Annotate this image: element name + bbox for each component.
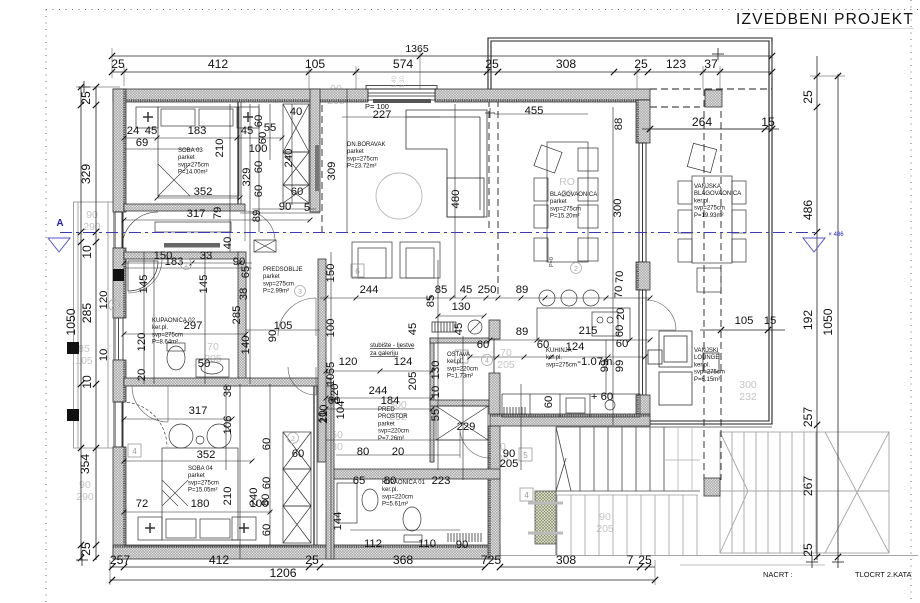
svg-text:45: 45 [241, 125, 254, 137]
svg-text:69: 69 [136, 137, 149, 149]
dim 105 15 line terrace [700, 329, 785, 331]
svg-text:79: 79 [212, 207, 224, 220]
svg-text:40: 40 [222, 237, 234, 250]
svg-text:2: 2 [574, 266, 578, 273]
wall interior above bath02 [124, 252, 245, 259]
page border top dotted [46, 9, 920, 11]
lower floor ghost outline left balcony [74, 202, 114, 448]
svg-text:257: 257 [110, 553, 131, 567]
svg-text:110: 110 [418, 538, 436, 550]
column wall left [113, 269, 124, 281]
svg-text:20: 20 [136, 369, 148, 382]
svg-text:4: 4 [132, 447, 137, 456]
svg-text:223: 223 [432, 475, 451, 487]
wall interior bath01 left [326, 386, 334, 559]
tv wall strip living [315, 145, 319, 191]
svg-text:90: 90 [456, 539, 469, 551]
ostava door leaf [493, 339, 495, 373]
wall interior predsoblje right [318, 259, 326, 462]
circled tag [181, 259, 192, 270]
svg-text:60: 60 [257, 132, 269, 145]
page border left dotted [45, 10, 47, 603]
svg-text:455: 455 [525, 105, 544, 117]
svg-text:A: A [112, 303, 117, 310]
svg-text:10: 10 [430, 386, 442, 399]
wall interior below soba03 [124, 204, 245, 211]
section triangle right [803, 238, 825, 252]
wall interior bath02 right [238, 252, 246, 384]
staircase lower flight [556, 495, 698, 555]
roof overhang dashed lines terrace [650, 89, 772, 480]
page border right dotted [910, 0, 912, 603]
door arc predsoblje a [278, 298, 316, 336]
svg-text:192: 192 [801, 310, 815, 331]
wall exterior top left segment [113, 89, 368, 102]
dimension line chain top row2 [112, 71, 772, 73]
wall exterior step [488, 426, 500, 559]
bed soba03 [136, 107, 259, 196]
svg-text:40: 40 [290, 106, 303, 118]
svg-text:25: 25 [638, 553, 652, 567]
door arc soba04 [132, 386, 168, 422]
svg-text:105: 105 [735, 315, 754, 327]
svg-text:TLOCRT 2.KATA: TLOCRT 2.KATA [855, 570, 912, 579]
svg-text:257: 257 [801, 407, 815, 428]
svg-text:60: 60 [616, 338, 629, 350]
svg-text:210: 210 [222, 487, 234, 506]
svg-text:25: 25 [801, 543, 815, 557]
sofa L living room [406, 108, 495, 217]
svg-text:329: 329 [79, 164, 93, 185]
svg-text:240: 240 [248, 488, 260, 507]
svg-text:105: 105 [305, 57, 326, 71]
staircase upper flight [556, 427, 772, 555]
closet X soba03 [283, 104, 309, 203]
svg-text:120: 120 [329, 384, 341, 403]
wall interior ostava top [430, 338, 489, 343]
svg-text:90: 90 [599, 511, 611, 523]
svg-text:329: 329 [241, 168, 253, 187]
svg-text:89: 89 [516, 326, 529, 338]
svg-text:140: 140 [240, 336, 252, 355]
dining table and chairs [534, 142, 598, 262]
svg-text:60: 60 [253, 185, 265, 198]
svg-text:25: 25 [79, 542, 93, 556]
kitchen island [537, 290, 630, 340]
right dim vertical lines [816, 56, 818, 560]
lamp symbols soba03 [143, 112, 253, 122]
svg-text:285: 285 [80, 303, 94, 324]
svg-text:229: 229 [457, 421, 476, 433]
svg-text:4: 4 [524, 491, 529, 500]
pillar terrace top [705, 90, 722, 107]
door tag [519, 448, 532, 461]
svg-text:72: 72 [136, 498, 149, 510]
svg-text:354: 354 [78, 454, 92, 475]
svg-text:232: 232 [739, 391, 757, 403]
svg-text:60: 60 [543, 396, 555, 409]
bottom dim line row2 1206 [110, 579, 655, 581]
svg-text:300: 300 [612, 199, 624, 218]
svg-text:65: 65 [240, 266, 252, 279]
dishwasher stripes [504, 407, 525, 415]
svg-text:50: 50 [198, 358, 211, 370]
svg-text:10: 10 [80, 375, 94, 389]
svg-text:725: 725 [481, 553, 502, 567]
svg-text:3: 3 [298, 289, 302, 296]
partition soba03 right a [237, 102, 239, 204]
svg-text:150: 150 [325, 264, 337, 283]
svg-text:1206: 1206 [269, 566, 296, 580]
window bathroom 02 [115, 318, 123, 360]
wall interior ostava bottom [430, 400, 489, 406]
svg-text:60: 60 [292, 448, 305, 460]
left dim vertical lines [80, 87, 82, 560]
circled tag [109, 300, 120, 311]
svg-text:1050: 1050 [821, 308, 835, 335]
wall exterior right lower [636, 395, 650, 425]
svg-text:70: 70 [614, 271, 626, 284]
section triangle left [48, 238, 70, 252]
bed soba04 [138, 448, 256, 540]
svg-text:45: 45 [145, 125, 158, 137]
svg-text:120: 120 [136, 333, 148, 352]
gallery edge dashed lines living room [322, 100, 498, 298]
svg-text:205: 205 [500, 458, 519, 470]
wall exterior right upper [636, 100, 650, 143]
door tag [351, 264, 364, 277]
partition soba04 closet right b [316, 386, 318, 545]
door tag [455, 350, 468, 363]
svg-text:10: 10 [317, 411, 329, 424]
svg-text:70: 70 [207, 341, 219, 353]
svg-text:120: 120 [339, 356, 358, 368]
circled tag [288, 433, 299, 444]
svg-text:285: 285 [231, 306, 243, 325]
section line A-A blue dashed [60, 232, 815, 234]
outdoor dining table terrace [678, 143, 746, 292]
svg-text:90: 90 [279, 201, 292, 213]
svg-text:1: 1 [184, 262, 188, 269]
bottom dim line row1 [110, 566, 485, 568]
wall exterior left upper [113, 89, 126, 212]
gallery ladder [432, 322, 456, 332]
survey cross markers [76, 48, 844, 568]
svg-text:205: 205 [497, 359, 515, 371]
svg-text:65: 65 [353, 475, 366, 487]
svg-text:368: 368 [393, 553, 414, 567]
lamp symbols soba04 [145, 523, 249, 533]
svg-text:15: 15 [764, 315, 777, 327]
svg-text:317: 317 [189, 405, 208, 417]
svg-text:25: 25 [111, 57, 125, 71]
svg-text:80: 80 [260, 494, 272, 507]
wall interior closet right [310, 89, 320, 212]
column balcony b [67, 409, 79, 421]
svg-text:60: 60 [261, 477, 273, 490]
kitchen counter bottom [502, 394, 640, 417]
dim 264 15 line [642, 128, 779, 130]
svg-text:20: 20 [615, 308, 627, 321]
lounge furniture terrace [648, 331, 719, 405]
svg-text:85: 85 [78, 343, 90, 355]
svg-text:RO: RO [559, 176, 575, 188]
svg-text:90: 90 [267, 330, 279, 343]
green bench [535, 491, 556, 544]
pillar terrace bottom [704, 478, 720, 496]
svg-text:210: 210 [214, 139, 226, 158]
dimension line chain top 1365 [112, 55, 772, 57]
svg-text:70: 70 [613, 286, 625, 299]
svg-text:85: 85 [435, 284, 448, 296]
svg-text:60: 60 [261, 438, 273, 451]
svg-text:IZVEDBENI PROJEKT: IZVEDBENI PROJEKT [736, 11, 914, 28]
svg-text:55: 55 [325, 362, 337, 375]
svg-text:412: 412 [209, 553, 230, 567]
svg-text:240: 240 [283, 149, 295, 168]
title underline [748, 28, 914, 30]
svg-text:60: 60 [253, 115, 265, 128]
svg-text:55: 55 [430, 409, 442, 422]
svg-text:480: 480 [450, 190, 462, 209]
bathroom 02 fixtures [128, 261, 229, 377]
svg-text:60: 60 [291, 186, 304, 198]
closet predsoblje [254, 240, 276, 252]
wall exterior left mid2 [113, 360, 126, 402]
svg-text:120: 120 [98, 291, 110, 310]
svg-text:25: 25 [801, 90, 815, 104]
wall interior above soba04 [124, 378, 331, 386]
svg-text:244: 244 [360, 284, 379, 296]
svg-text:124: 124 [394, 356, 413, 368]
svg-text:309: 309 [326, 162, 338, 181]
svg-text:183: 183 [188, 125, 207, 137]
svg-text:A: A [56, 218, 63, 229]
svg-text:308: 308 [556, 57, 577, 71]
svg-text:264: 264 [692, 115, 713, 129]
door arc predsoblje b [288, 367, 316, 395]
closet X soba04 [283, 432, 311, 543]
svg-text:6: 6 [355, 267, 360, 276]
ostava washing machine [468, 320, 482, 334]
entry door left [115, 212, 158, 248]
interior dim lines [124, 89, 772, 559]
roof outline bottom-right [720, 432, 889, 553]
svg-text:1365: 1365 [405, 43, 429, 55]
svg-text:37: 37 [704, 57, 718, 71]
svg-text:574: 574 [393, 57, 414, 71]
armchairs living [352, 242, 440, 278]
svg-text:60: 60 [261, 524, 273, 537]
svg-text:5: 5 [304, 202, 310, 214]
wall interior void right [430, 338, 434, 462]
door arc pred prostor [460, 430, 490, 458]
svg-text:45: 45 [407, 323, 419, 336]
svg-text:20: 20 [392, 446, 405, 458]
sideboard hallway [164, 243, 220, 248]
svg-text:P=0: P=0 [549, 257, 555, 267]
svg-text:-1.07m2: -1.07m2 [577, 356, 615, 368]
svg-text:7: 7 [627, 553, 634, 567]
wall interior bath01 top [328, 469, 500, 479]
svg-text:P= 100: P= 100 [365, 102, 389, 111]
door tag [128, 444, 141, 457]
svg-text:317: 317 [187, 208, 206, 220]
svg-text:105: 105 [75, 355, 93, 367]
svg-text:4: 4 [485, 358, 489, 365]
svg-text:180: 180 [191, 498, 210, 510]
svg-text:25: 25 [485, 57, 499, 71]
svg-text:412: 412 [208, 57, 229, 71]
svg-text:130: 130 [452, 301, 471, 313]
svg-text:130: 130 [430, 361, 442, 380]
svg-text:89: 89 [251, 210, 263, 223]
interior dim ticks [324, 296, 329, 301]
svg-text:5: 5 [523, 451, 528, 460]
svg-text:1050: 1050 [64, 308, 78, 335]
svg-text:99: 99 [614, 360, 626, 373]
svg-text:60: 60 [477, 339, 490, 351]
svg-text:+ 60: + 60 [591, 391, 613, 403]
wall exterior kitchen bottom [490, 414, 650, 426]
svg-text:205: 205 [407, 372, 419, 391]
svg-text:112: 112 [364, 538, 382, 550]
circled tag [571, 263, 582, 274]
svg-text:2: 2 [291, 436, 295, 443]
svg-text:184: 184 [381, 395, 400, 407]
svg-text:308: 308 [556, 553, 577, 567]
svg-text:250: 250 [478, 284, 497, 296]
svg-text:88: 88 [613, 118, 625, 131]
svg-text:486: 486 [801, 200, 815, 221]
circled tag [482, 355, 493, 366]
svg-text:38: 38 [238, 288, 250, 301]
chairs soba04 [169, 424, 231, 448]
svg-text:145: 145 [138, 275, 150, 294]
partition soba03 right b [240, 102, 242, 204]
column balcony a [67, 342, 79, 354]
round rug living [376, 173, 422, 219]
wall exterior left lower [113, 447, 126, 559]
bathroom 01 fixtures [337, 483, 422, 542]
svg-text:300: 300 [739, 379, 757, 391]
svg-text:60: 60 [253, 161, 265, 174]
door arc soba03 [245, 211, 275, 241]
svg-text:25: 25 [634, 57, 648, 71]
svg-text:× 486: × 486 [828, 232, 844, 238]
svg-text:290: 290 [76, 491, 94, 503]
terrace frame double outline [488, 38, 772, 424]
svg-text:123: 123 [666, 57, 687, 71]
window top living room [368, 89, 435, 100]
door arc bath02 [128, 259, 162, 293]
wall exterior top right segment [435, 89, 650, 102]
balcony door soba 04 [115, 402, 167, 447]
svg-text:144: 144 [332, 512, 344, 531]
wall exterior bottom [113, 545, 500, 559]
lower terrace line [680, 564, 825, 566]
wall interior kitchen left lower [489, 373, 500, 414]
door tag [520, 488, 533, 501]
svg-text:10: 10 [80, 245, 94, 259]
wall pier right [636, 262, 650, 290]
terrace edge line [500, 555, 918, 557]
svg-text:45: 45 [453, 323, 465, 336]
svg-text:45: 45 [460, 284, 473, 296]
partition soba04 closet right [313, 386, 315, 545]
svg-text:352: 352 [197, 449, 216, 461]
closet X below ostava [436, 406, 488, 440]
svg-text:38: 38 [222, 385, 234, 398]
svg-text:15: 15 [761, 115, 775, 129]
svg-text:1 40: 1 40 [392, 76, 398, 88]
svg-text:80: 80 [357, 446, 370, 458]
svg-text:145: 145 [198, 275, 210, 294]
svg-text:25: 25 [79, 91, 93, 105]
svg-text:60: 60 [614, 325, 626, 338]
svg-text:89: 89 [516, 284, 529, 296]
glass door terrace [639, 290, 646, 395]
svg-text:33: 33 [200, 250, 213, 262]
svg-text:290: 290 [83, 221, 101, 233]
svg-text:25: 25 [305, 553, 319, 567]
window dining east [639, 143, 646, 262]
svg-text:100: 100 [325, 319, 337, 338]
wall interior kitchen left upper [489, 320, 500, 339]
svg-text:352: 352 [194, 186, 213, 198]
circled tag [295, 286, 306, 297]
svg-text:24: 24 [127, 125, 140, 137]
svg-text:1 30: 1 30 [400, 76, 406, 88]
door arc terrace [646, 300, 676, 330]
wall exterior left mid1 [113, 248, 126, 318]
svg-text:10: 10 [98, 349, 110, 362]
svg-text:267: 267 [801, 476, 815, 497]
svg-text:215: 215 [579, 325, 598, 337]
radiator bathroom01 [448, 533, 481, 542]
svg-text:NACRT :: NACRT : [763, 570, 793, 579]
